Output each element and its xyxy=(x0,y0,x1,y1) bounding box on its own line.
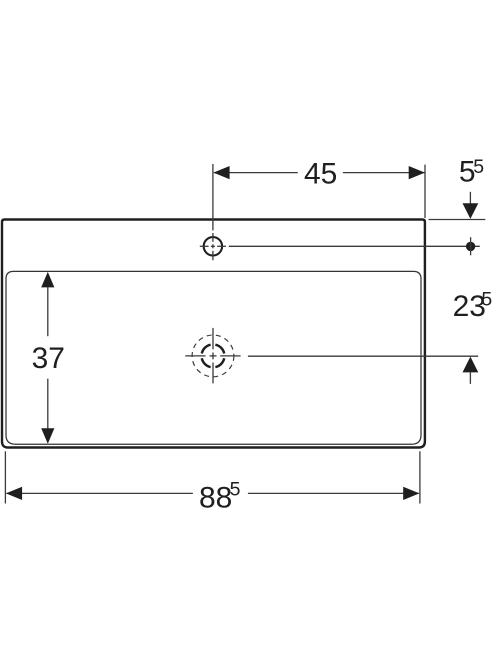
drain centerline vertical segments xyxy=(212,328,214,349)
dimension 5.5: arrow tail xyxy=(469,192,471,205)
tap hole leader line to dimension point xyxy=(229,245,480,247)
dimension 88.5: left arrowhead xyxy=(6,487,22,500)
svg-text:88: 88 xyxy=(199,482,232,515)
drain leader line to arrow xyxy=(248,355,478,357)
dimension 88.5: line right segment xyxy=(248,492,419,494)
svg-text:5: 5 xyxy=(230,478,241,500)
drain centerline horizontal segments xyxy=(185,355,205,357)
dimension 45: line left segment xyxy=(214,172,298,174)
dimension 45: line right segment xyxy=(343,172,425,174)
dimension 23.5: up arrowhead at drain line xyxy=(463,357,479,373)
tap hole centerline vertical segments xyxy=(212,233,214,242)
drain hole dashed circle xyxy=(192,335,234,377)
dot vertical tick xyxy=(470,237,472,255)
dimension point marker (dot) xyxy=(466,242,475,251)
svg-text:5: 5 xyxy=(481,289,492,311)
washbasin outer outline xyxy=(2,220,425,448)
dimension 88.5: line left segment xyxy=(7,492,193,494)
tap hole centerline horizontal segments xyxy=(200,245,209,247)
dimension 37: line lower segment xyxy=(47,379,49,429)
dimension 5.5: reference line at top edge xyxy=(429,219,486,221)
dimension 37: line upper segment xyxy=(47,287,49,336)
svg-text:45: 45 xyxy=(304,157,337,190)
dimension 45: right arrowhead xyxy=(409,166,425,179)
dimension 88.5: right arrowhead xyxy=(403,487,419,500)
dimension 37: down arrowhead at basin bottom xyxy=(41,428,54,444)
dimension 88.5: left extension line xyxy=(4,451,6,503)
dimension 5.5: down arrowhead xyxy=(463,203,479,219)
tap hole circle xyxy=(204,237,222,255)
dimension 88.5: right extension line xyxy=(419,451,421,503)
dimension 23.5: arrow tail xyxy=(469,372,471,384)
svg-text:37: 37 xyxy=(32,342,65,375)
drain hole inner circle arcs xyxy=(202,345,224,367)
dimension 37: up arrowhead at basin top xyxy=(41,272,54,288)
dimension 45: right extension line xyxy=(424,165,426,218)
svg-text:5: 5 xyxy=(473,156,484,178)
basin rim inner rounded rectangle xyxy=(6,271,421,444)
dimension 45: left arrowhead xyxy=(213,166,229,179)
dimension 45: left extension line (tap hole centerline up) xyxy=(212,164,214,230)
